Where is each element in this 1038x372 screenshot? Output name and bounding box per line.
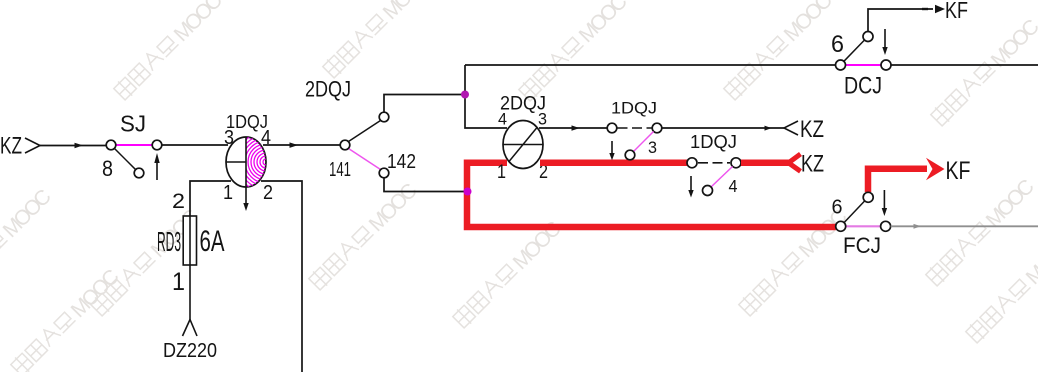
bus arrow KF (top) [922,0,968,23]
changeover contact 2DQJ 141/142 [305,77,416,182]
red wire 1DQJ-4 to KZ arrow [741,160,789,167]
svg-text:2: 2 [172,190,185,213]
junction node KZ branch [461,91,469,99]
bus terminal KZ (left) [0,133,40,160]
svg-text:6: 6 [832,197,843,219]
contact SJ-8 (time relay, closed front contact) [102,111,162,182]
svg-text:RD3: RD3 [157,226,181,257]
wire 2DQJ pin3 to contact 1DQJ-3 [539,125,607,130]
red wire 2DQJ pin2 to contact 1DQJ-4 [540,160,687,167]
svg-text:1DQJ: 1DQJ [690,131,737,152]
red bus arrow KF (lower right) [926,157,971,185]
svg-text:DZ220: DZ220 [163,340,217,362]
svg-text:KZ: KZ [800,116,824,143]
svg-text:3: 3 [538,110,547,129]
watermarks (decorative) [112,0,227,103]
svg-text:3: 3 [648,138,657,157]
svg-text:KF: KF [945,0,968,23]
relay coil 2DQJ [497,94,548,184]
wire DCJ bus left [465,64,836,66]
wire DCJ to KF arrow [868,9,933,32]
svg-text:1: 1 [172,268,185,296]
svg-text:KF: KF [946,157,971,185]
svg-text:142: 142 [387,151,416,173]
front contact DCJ-6 (closed) [831,29,891,100]
svg-text:1: 1 [497,162,506,183]
wire junction down to 2DQJ pin 4 [465,95,507,129]
red energized path: 2DQJ pin1 down and right to FCJ [467,163,836,227]
svg-text:4: 4 [729,176,738,196]
svg-text:6A: 6A [200,225,225,258]
wire junction up to DCJ bus [464,65,466,95]
svg-text:6: 6 [831,31,844,58]
red bus arrow KZ (lower right) [789,151,825,178]
wire DCJ bus right [891,64,1038,66]
wire 142 down to red junction [384,178,464,192]
front contact 1DQJ-4 (open, back contact closed) on red path [687,131,741,198]
svg-text:8: 8 [102,156,113,181]
wire fuse to DZ220 terminal [189,265,191,320]
svg-text:SJ: SJ [120,111,146,137]
svg-text:KZ: KZ [801,151,824,178]
wire 1DQJ pin 1 to fuse [190,181,231,216]
fuse RD3 6A [157,190,225,296]
front contact FCJ-6 (closed) [832,190,891,258]
wire KZ to SJ [40,143,106,149]
wire 1DQJ pin 2 down to bottom edge [261,181,302,372]
wire 141 to junction [384,95,465,113]
svg-text:FCJ: FCJ [843,233,881,258]
svg-text:1: 1 [223,182,233,204]
wire FCJ bus right (gray) [891,224,1038,229]
svg-text:DCJ: DCJ [844,73,882,100]
svg-text:2: 2 [263,182,273,204]
junction node 142 branch [464,188,472,196]
power terminal DZ220 [163,320,217,363]
wire 1DQJ-3 to KZ arrow [662,126,784,131]
red wire FCJ to KF arrow [868,169,927,192]
svg-text:1DQJ: 1DQJ [611,99,657,118]
front contact 1DQJ-3 (open, with back contact closed) [607,99,662,161]
svg-text:141: 141 [329,159,351,181]
wire SJ to 1DQJ coil [162,144,228,146]
svg-text:2DQJ: 2DQJ [305,77,351,102]
svg-text:4: 4 [498,110,507,129]
bus arrow KZ (upper right) [784,116,824,143]
svg-text:KZ: KZ [0,133,22,160]
relay coil 1DQJ [223,112,299,211]
wire 1DQJ to contact 141 [263,142,340,148]
